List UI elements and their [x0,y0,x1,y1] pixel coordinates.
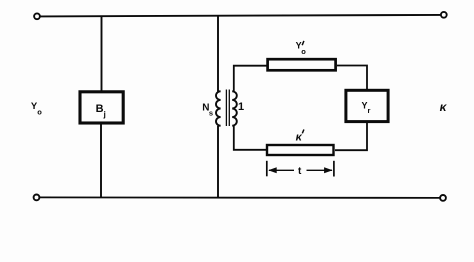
transformer Ns:1 secondary winding [232,91,237,125]
element kappa' [267,130,334,156]
wire secondary top [234,66,267,92]
dimension t [267,161,334,177]
terminal bottom-right [440,195,446,201]
transformer Ns:1 primary winding [216,91,221,125]
load Yr [346,90,388,121]
wire Bj to bottom rail [100,125,102,198]
wire Y'o to Yr [337,66,367,91]
wire bottom rail [40,196,440,199]
terminal top-right [441,12,447,18]
wire transformer primary bottom [217,126,219,198]
svg-text:κ: κ [440,100,448,114]
svg-text:κ: κ [296,132,303,144]
wire secondary bottom [234,126,266,150]
wire top rail to Bj [101,16,103,91]
terminal bottom-left [34,195,40,201]
wire top rail [40,15,440,17]
element Y'o [268,41,336,71]
terminal top-left [34,13,40,19]
wire Yr to kappa' [335,123,367,151]
svg-text:o: o [301,47,306,56]
wire transformer primary top [217,16,219,92]
transformer core [226,90,229,127]
svg-text:1: 1 [238,101,244,113]
susceptance Bj [80,92,123,123]
